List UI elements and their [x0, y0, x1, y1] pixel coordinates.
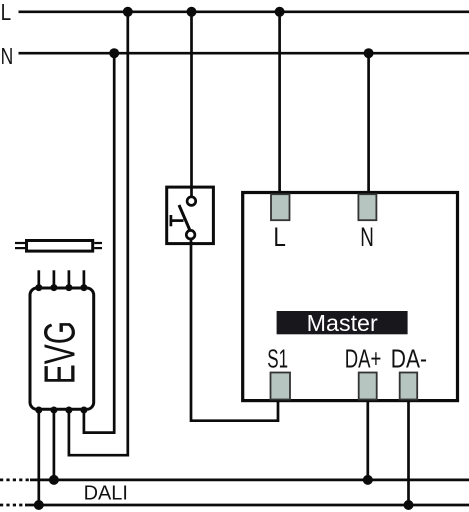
Master box	[243, 193, 458, 401]
svg-text:DALI: DALI	[84, 482, 128, 505]
lamp pin bottom-right	[94, 247, 102, 249]
switch lever	[179, 205, 190, 231]
EVG top pin 3 dot	[65, 284, 72, 291]
wire switch bottom to Master S1	[191, 239, 278, 421]
svg-text:DA+: DA+	[345, 346, 382, 374]
svg-text:N: N	[360, 222, 374, 252]
EVG top pin 2 wire	[53, 270, 56, 288]
wire L bus to Master L terminal	[278, 12, 281, 196]
DALI upper bus	[30, 479, 469, 482]
wire EVG pin 1 to lower DALI line	[37, 410, 40, 505]
ballast EVG box	[30, 288, 94, 409]
lamp pin top-right	[94, 242, 102, 244]
wire L bus to switch top	[190, 12, 193, 197]
junction L / EVG wire	[123, 7, 133, 17]
junction N / Master N wire	[364, 48, 374, 58]
svg-text:DA-: DA-	[391, 346, 427, 374]
wire Master DA- to lower DALI line	[407, 401, 410, 505]
svg-text:S1: S1	[267, 346, 288, 374]
DALI upper bus dotted continuation	[0, 479, 31, 482]
Master name bar	[277, 311, 408, 334]
EVG top pin 4 wire	[83, 270, 86, 288]
EVG bottom pin 1 dot	[35, 407, 42, 414]
wire N bus to EVG pin 4	[84, 53, 114, 432]
fluorescent lamp tube	[27, 241, 93, 252]
Master terminal N	[358, 194, 376, 220]
lamp pin top-left	[15, 242, 25, 244]
EVG bottom pin 3 dot	[65, 407, 72, 414]
Master terminal DA-	[400, 373, 418, 400]
Master terminal S1	[271, 373, 291, 400]
wire Master DA+ to upper DALI line	[366, 401, 369, 480]
svg-text:EVG: EVG	[36, 321, 84, 385]
junction EVG pin 1 / lower DALI	[34, 500, 44, 510]
switch bottom contact	[186, 230, 195, 239]
EVG bottom pin 4 dot	[80, 407, 87, 414]
switch actuator T bar	[170, 215, 173, 226]
EVG top pin 2 dot	[50, 284, 57, 291]
junction DA+ / upper DALI	[363, 475, 373, 485]
Master terminal L	[271, 194, 290, 220]
wire N bus to Master N terminal	[367, 53, 370, 196]
EVG top pin 1 wire	[37, 270, 40, 288]
wire N bus	[19, 52, 469, 55]
wire L bus to EVG pin 3	[69, 12, 128, 455]
svg-text:L: L	[1, 0, 12, 25]
junction L / Master L wire	[275, 7, 285, 17]
switch S1 box	[167, 187, 214, 244]
junction N / EVG wire	[109, 48, 119, 58]
wire L bus	[19, 10, 469, 13]
EVG top pin 4 dot	[80, 284, 87, 291]
svg-text:L: L	[273, 222, 286, 252]
wire EVG pin 2 to upper DALI line	[53, 410, 56, 480]
DALI lower bus dotted continuation	[0, 504, 26, 507]
svg-text:Master: Master	[307, 310, 378, 336]
EVG top pin 1 dot	[35, 284, 42, 291]
Master terminal DA+	[359, 373, 377, 400]
switch top contact	[187, 197, 196, 206]
EVG top pin 3 wire	[68, 270, 71, 288]
junction L / switch wire	[187, 7, 197, 17]
junction EVG pin 2 / upper DALI	[49, 475, 59, 485]
EVG bottom pin 2 dot	[50, 407, 57, 414]
DALI lower bus	[25, 504, 469, 507]
switch actuator T arm	[171, 219, 184, 222]
lamp pin bottom-left	[15, 247, 25, 249]
svg-text:N: N	[1, 43, 14, 69]
junction DA- / lower DALI	[404, 500, 414, 510]
